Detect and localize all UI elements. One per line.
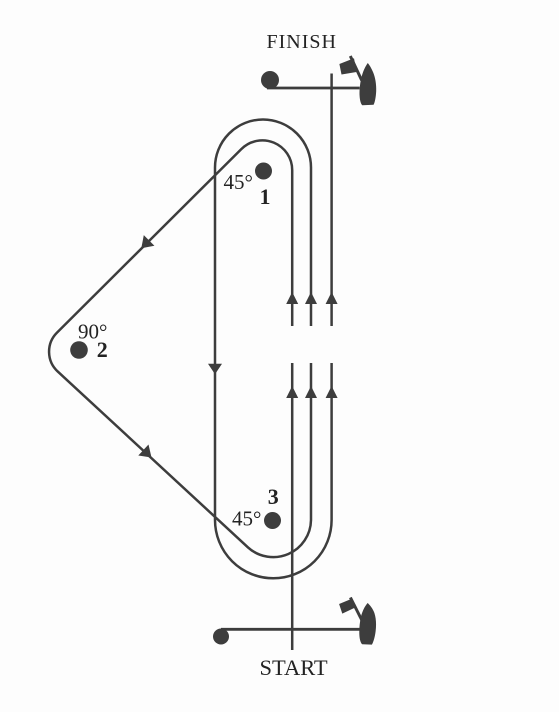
beat arrow upper row, final beat line [326,292,338,304]
svg-text:START: START [260,655,328,680]
mark 3 buoy [264,512,281,529]
start pin buoy [213,629,229,645]
start committee boat hull [359,603,376,645]
reach arrow mark2 to mark3 [138,445,151,458]
svg-text:45°: 45° [224,170,253,194]
course path: start beat, mark roundings, reaches, run, finish beat [49,74,332,651]
reach arrow mark1 to mark2 [141,235,154,248]
beat arrow lower row, final beat line [326,386,338,398]
svg-text:3: 3 [268,484,279,509]
svg-text:2: 2 [97,337,108,362]
downwind run arrow on left line [208,364,222,375]
mark 2 buoy [70,341,88,359]
start committee boat flag [339,599,355,614]
finish committee boat flag [339,58,356,74]
beat arrow lower row, second beat line [305,386,317,398]
finish line [267,87,360,90]
start committee boat mast [350,598,362,621]
svg-text:45°: 45° [232,507,261,531]
beat arrow upper row, first beat line [286,292,298,304]
finish committee boat mast [350,56,362,81]
gap in the three beat lines [284,326,340,363]
beat arrow lower row, first beat line [286,386,298,398]
beat arrow upper row, second beat line [305,292,317,304]
mark 1 buoy [255,163,272,180]
svg-text:1: 1 [260,184,271,209]
finish pin buoy [261,71,279,89]
finish committee boat hull [360,63,377,105]
svg-text:FINISH: FINISH [267,31,337,53]
start line [221,628,360,631]
